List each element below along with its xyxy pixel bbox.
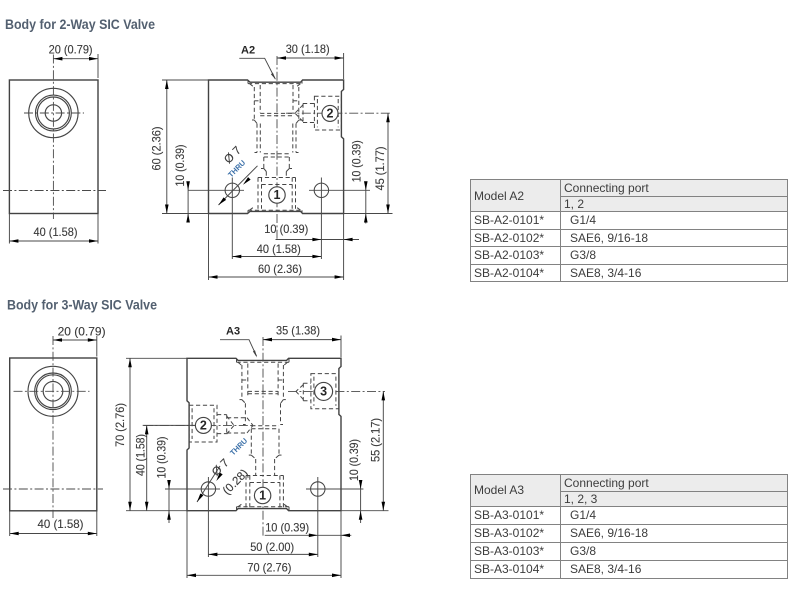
dimension 70 (2.76) left (3-way) — [114, 358, 190, 510]
dimension 30 (1.18) top (2-way) — [277, 43, 344, 79]
mounting hole right (3-way) — [306, 477, 363, 557]
vertical centerline (left view 3-way) — [52, 336, 54, 518]
svg-text:10 (0.39): 10 (0.39) — [350, 140, 363, 182]
svg-text:40 (1.58): 40 (1.58) — [38, 518, 84, 531]
svg-text:THRU: THRU — [228, 436, 249, 457]
svg-text:2: 2 — [200, 418, 207, 432]
port 2 circle label (3-way) — [195, 417, 211, 433]
dimension 50 (2.00) bottom (3-way) — [208, 541, 317, 556]
cartridge cavity bore A (2-way, dashed) — [254, 85, 298, 120]
svg-text:10 (0.39): 10 (0.39) — [264, 223, 308, 236]
dimension 10 (0.39) left (2-way) — [174, 144, 190, 222]
cartridge cavity step 2 (2-way, dashed) — [255, 153, 299, 178]
cartridge cavity step 2 (3-way, dashed) — [243, 425, 283, 456]
table: Model A3 connecting ports — [470, 474, 788, 579]
svg-text:20 (0.79): 20 (0.79) — [58, 326, 106, 339]
dimension 10 (0.39) bottom (3-way) — [265, 521, 352, 537]
svg-text:60 (2.36): 60 (2.36) — [151, 126, 164, 170]
hole callout leader Ø7 THRU (2-way) — [217, 144, 257, 206]
dimension 35 (1.38) top (3-way) — [263, 324, 341, 357]
svg-text:55 (2.17): 55 (2.17) — [369, 418, 382, 462]
port 2 centerline (3-way) — [144, 424, 255, 426]
cartridge cavity bore A (3-way, dashed) — [242, 364, 284, 400]
svg-text:20 (0.79): 20 (0.79) — [49, 44, 93, 57]
svg-text:10 (0.39): 10 (0.39) — [156, 436, 169, 478]
dimension 40 (1.58) bottom (left view 2-way) — [9, 214, 98, 244]
mounting hole right (2-way) — [309, 178, 370, 260]
hole callout leader Ø7 THRU (0.28) (3-way) — [195, 436, 250, 503]
svg-text:2: 2 — [327, 106, 334, 120]
svg-text:Body for 2-Way SIC Valve: Body for 2-Way SIC Valve — [5, 17, 155, 32]
block outline (left view 3-way) — [10, 358, 97, 511]
port 3 side cavity (3-way, dashed) — [296, 374, 339, 409]
port 3 circle label (3-way) — [315, 382, 333, 400]
dimension 55 (2.17) right (3-way) — [341, 391, 389, 510]
cartridge cavity step 1 (3-way, dashed) — [240, 400, 286, 425]
dimension 10 (0.39) right (2-way) — [350, 140, 367, 223]
cartridge cavity step 3 (3-way, dashed) — [249, 455, 282, 475]
block outline (main view 3-way) with port spot-face recesses — [187, 358, 341, 510]
port 2 circle label (2-way) — [322, 105, 338, 121]
svg-text:35 (1.38): 35 (1.38) — [276, 324, 320, 337]
cartridge cavity top flange (2-way, dashed) — [248, 81, 302, 88]
svg-text:1: 1 — [274, 188, 281, 202]
dimension 40 (1.58) bottom (left view 3-way) — [10, 511, 97, 536]
port 1 circle label (2-way) — [269, 187, 285, 203]
dimension 60 (2.36) bottom (2-way) — [209, 214, 344, 281]
port 3 centerline (3-way) — [288, 390, 385, 392]
vertical centerline (left view 2-way) — [52, 55, 54, 220]
main cavity centerline (3-way) — [262, 337, 264, 537]
hole plane centerline (left view 3-way) — [3, 488, 103, 490]
dimension 40 (1.58) bottom (2-way) — [232, 243, 321, 258]
dimension 10 (0.39) right (3-way) — [348, 439, 362, 523]
label A3 with leader — [220, 326, 257, 358]
cartridge cavity top flange (3-way, dashed) — [237, 359, 290, 366]
svg-text:3: 3 — [320, 384, 327, 398]
port 1 circle label (3-way) — [254, 487, 270, 503]
svg-text:10 (0.39): 10 (0.39) — [348, 439, 361, 481]
dimension 40 (1.58) left (3-way) — [135, 425, 196, 510]
cartridge cavity bottom flange (3-way, dashed) — [237, 504, 290, 511]
svg-text:A2: A2 — [241, 44, 255, 56]
svg-text:Ø 7: Ø 7 — [209, 456, 231, 478]
port 2 centerline (2-way) — [286, 112, 390, 114]
svg-text:A3: A3 — [226, 326, 240, 338]
horizontal centerline (left view 2-way) — [24, 112, 84, 114]
port 1 chamber box (3-way, dashed) — [246, 476, 283, 510]
port 1 chamber box (2-way, dashed) — [258, 178, 296, 209]
label A2 with leader — [239, 44, 275, 79]
block outline (left view 2-way) — [9, 80, 98, 214]
horizontal centerline (left view 3-way) — [14, 390, 90, 392]
svg-text:Body for 3-Way SIC Valve: Body for 3-Way SIC Valve — [7, 298, 157, 313]
cartridge cavity bottom flange (2-way, dashed) — [248, 207, 302, 214]
dimension 70 (2.76) bottom (3-way) — [187, 511, 341, 578]
hole plane centerline (left view 2-way) — [3, 190, 106, 192]
cartridge cavity step 1 (2-way, dashed) — [252, 120, 301, 153]
port 2 side cavity (2-way, dashed) — [295, 96, 341, 130]
mounting hole left (2-way) — [188, 178, 244, 260]
dimension 10 (0.39) bottom (2-way) — [264, 223, 359, 241]
svg-text:40 (1.58): 40 (1.58) — [257, 243, 301, 256]
svg-text:45 (1.77): 45 (1.77) — [374, 146, 387, 190]
svg-text:60 (2.36): 60 (2.36) — [258, 263, 302, 276]
svg-text:1: 1 — [259, 489, 266, 503]
svg-text:10 (0.39): 10 (0.39) — [174, 144, 187, 186]
table: Model A2 connecting ports — [470, 179, 788, 282]
dimension 10 (0.39) left (3-way) — [156, 436, 211, 523]
dimension 60 (2.36) left (2-way) — [151, 80, 209, 214]
svg-text:50 (2.00): 50 (2.00) — [250, 541, 294, 554]
svg-text:70 (2.76): 70 (2.76) — [114, 403, 127, 447]
dimension 20 (0.79) top (left view 2-way) — [49, 44, 98, 78]
svg-text:70 (2.76): 70 (2.76) — [247, 561, 291, 574]
svg-text:40 (1.58): 40 (1.58) — [34, 226, 78, 239]
svg-text:10 (0.39): 10 (0.39) — [265, 521, 309, 534]
svg-text:30 (1.18): 30 (1.18) — [286, 43, 330, 56]
block outline (main view 2-way) with port spot-face recesses — [209, 80, 344, 214]
mounting hole left (3-way) — [169, 477, 220, 557]
port cavity circles (left view 2-way) — [29, 88, 78, 137]
port cavity circles (left view 3-way) — [28, 366, 78, 416]
svg-text:40 (1.58): 40 (1.58) — [135, 434, 148, 476]
port 2 side cavity (3-way, dashed) — [189, 405, 253, 442]
dimension 45 (1.77) right (2-way) — [344, 113, 393, 213]
main cavity centerline (2-way) — [276, 56, 278, 241]
dimension 20 (0.79) top (left view 3-way) — [53, 326, 106, 357]
